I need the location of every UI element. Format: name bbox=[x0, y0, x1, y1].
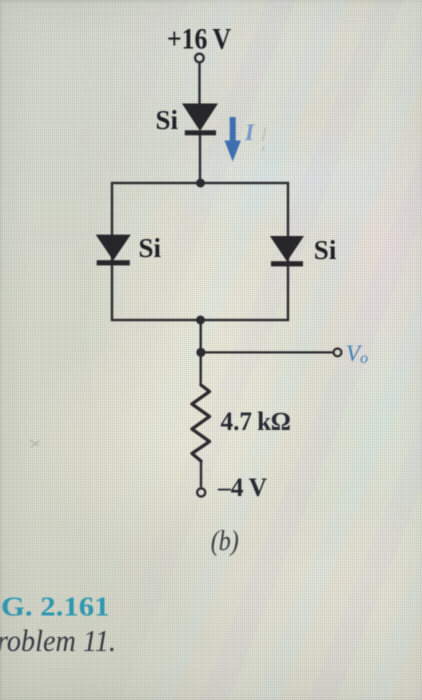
svg-text:(b): (b) bbox=[211, 525, 239, 557]
svg-text:–4 V: –4 V bbox=[217, 473, 267, 502]
svg-text:I: I bbox=[244, 120, 255, 145]
svg-text:4.7 kΩ: 4.7 kΩ bbox=[221, 407, 291, 436]
svg-text:Si: Si bbox=[139, 233, 162, 263]
svg-text:G. 2.161: G. 2.161 bbox=[1, 591, 109, 622]
svg-text:Si: Si bbox=[156, 105, 179, 135]
svg-text:+16 V: +16 V bbox=[167, 24, 231, 56]
svg-text:roblem 11.: roblem 11. bbox=[0, 623, 116, 658]
svg-text:Si: Si bbox=[314, 235, 337, 265]
svg-text:Vo: Vo bbox=[346, 341, 368, 367]
